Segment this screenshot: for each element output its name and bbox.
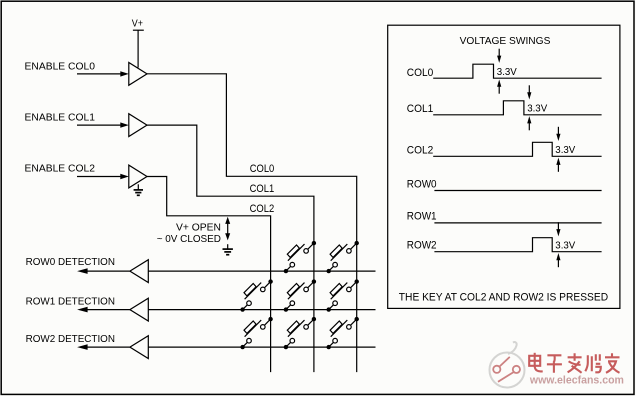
svg-text:V+: V+ <box>132 19 143 30</box>
wire: ENABLE COL2 input with arrowhead <box>77 174 129 179</box>
svg-text:ROW2: ROW2 <box>407 239 437 251</box>
svg-text:COL0: COL0 <box>250 163 275 175</box>
waveform COL0 trace <box>433 64 601 78</box>
svg-text:ROW2 DETECTION: ROW2 DETECTION <box>26 334 115 345</box>
wire: ROW1 output with arrowhead <box>77 307 130 313</box>
watermark text 电子发烧友 <box>529 353 619 373</box>
svg-text:ROW1 DETECTION: ROW1 DETECTION <box>26 296 115 307</box>
svg-text:3.3V: 3.3V <box>555 239 575 251</box>
svg-text:~ 0V CLOSED: ~ 0V CLOSED <box>157 234 221 245</box>
svg-text:3.3V: 3.3V <box>555 144 575 156</box>
svg-text:COL1: COL1 <box>407 103 434 115</box>
switch S1 (key COL1-ROW0) <box>284 241 316 273</box>
waveform ROW1 trace <box>434 222 601 224</box>
svg-text:VOLTAGE SWINGS: VOLTAGE SWINGS <box>460 36 551 47</box>
wire: COL2 net <box>147 177 271 373</box>
annotation 3.3V (COL2) <box>555 127 575 172</box>
svg-text:www.elecfans.com: www.elecfans.com <box>529 374 624 386</box>
wire: ROW0 net <box>148 270 375 272</box>
svg-text:THE KEY AT COL2 AND ROW2 IS PR: THE KEY AT COL2 AND ROW2 IS PRESSED <box>399 291 609 303</box>
svg-text:COL1: COL1 <box>250 183 275 195</box>
svg-text:ENABLE COL0: ENABLE COL0 <box>25 62 96 73</box>
waveform COL1 trace <box>433 101 601 115</box>
V+ supply symbol <box>133 30 144 67</box>
buffer U4 (ROW0 detection) <box>130 260 148 283</box>
svg-text:ENABLE COL1: ENABLE COL1 <box>25 113 96 124</box>
waveform panel border <box>388 25 620 308</box>
svg-text:ROW0 DETECTION: ROW0 DETECTION <box>26 257 115 268</box>
wire: ROW2 net <box>148 346 375 348</box>
switch S2 (key COL0-ROW0) <box>327 241 359 273</box>
annotation arrow: column voltage swing (double headed) <box>225 217 230 241</box>
wire: COL0 net <box>147 74 357 372</box>
annotation 3.3V (COL0) <box>497 49 517 94</box>
wire: COL1 net <box>147 125 314 372</box>
switch S6 (key COL2-ROW2, pressed in example) <box>240 317 272 349</box>
switch S7 (key COL1-ROW2) <box>284 317 316 349</box>
switch S8 (key COL0-ROW2) <box>327 317 359 349</box>
wire: ROW2 output with arrowhead <box>77 344 130 350</box>
wire: ROW0 output with arrowhead <box>77 268 130 274</box>
svg-text:3.3V: 3.3V <box>527 103 547 115</box>
svg-text:COL2: COL2 <box>407 144 434 156</box>
waveform COL2 trace <box>433 142 601 156</box>
buffer U3 (COL2 driver) <box>129 165 147 188</box>
svg-text:3.3V: 3.3V <box>497 66 517 78</box>
buffer U5 (ROW1 detection) <box>130 298 148 321</box>
buffer U6 (ROW2 detection) <box>130 336 148 359</box>
wire: ENABLE COL0 input with arrowhead <box>77 71 129 76</box>
ground (column idle state) <box>223 244 233 255</box>
waveform ROW2 trace <box>434 238 601 252</box>
svg-text:ENABLE COL2: ENABLE COL2 <box>25 163 96 174</box>
annotation 3.3V (ROW2) <box>555 222 575 267</box>
watermark logo <box>490 342 525 387</box>
switch S5 (key COL0-ROW1) <box>327 279 359 311</box>
switch S3 (key COL2-ROW1) <box>240 279 272 311</box>
waveform ROW0 trace <box>434 190 601 192</box>
wire: ROW1 net <box>148 309 375 311</box>
annotation 3.3V (COL1) <box>527 85 547 130</box>
svg-text:ROW0: ROW0 <box>407 179 437 191</box>
svg-text:ROW1: ROW1 <box>407 211 437 223</box>
ground (buffer U3) <box>134 184 143 195</box>
wire: ENABLE COL1 input with arrowhead <box>77 122 129 127</box>
buffer U2 (COL1 driver) <box>129 114 147 137</box>
buffer U1 (COL0 driver) <box>129 63 147 86</box>
switch S4 (key COL1-ROW1) <box>284 279 316 311</box>
svg-text:COL2: COL2 <box>250 203 275 215</box>
svg-text:COL0: COL0 <box>407 67 434 79</box>
svg-text:V+ OPEN: V+ OPEN <box>176 223 221 234</box>
